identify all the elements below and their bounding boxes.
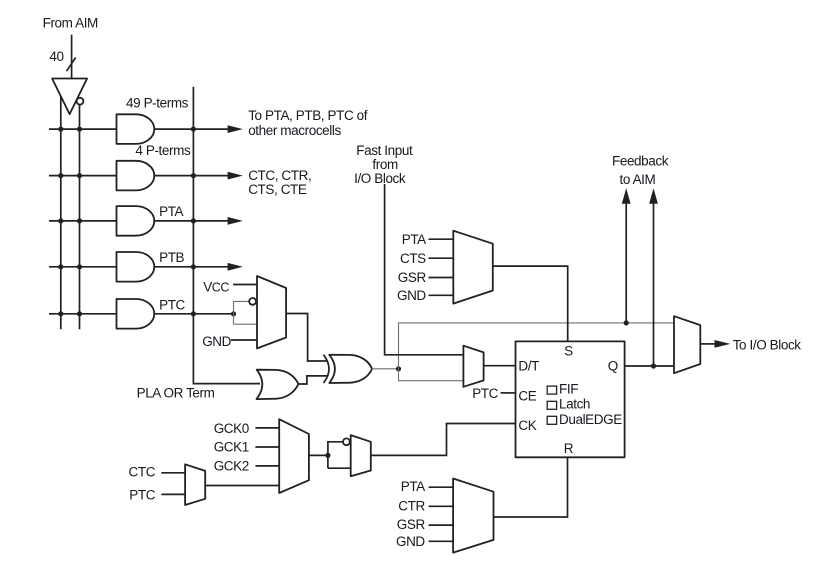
wire AND1 input stub: [49, 128, 117, 130]
and-gate G1 49 P-terms: [117, 114, 155, 144]
svg-text:CTC, CTR,: CTC, CTR,: [248, 168, 311, 183]
wire OR output to XOR: [298, 376, 327, 384]
and-gate G5 PTC: [117, 299, 155, 329]
wire clock inverted branch: [328, 442, 343, 468]
checkbox Latch: [547, 401, 556, 409]
wire M2 output to D/T: [484, 365, 516, 367]
svg-text:Latch: Latch: [559, 397, 590, 412]
svg-text:D/T: D/T: [518, 359, 539, 374]
and-gate G4 PTB: [117, 252, 155, 282]
junction dots on collector: [191, 127, 196, 317]
arrowhead G3: [228, 217, 243, 225]
wire M1 output to XOR: [286, 314, 326, 362]
svg-text:S: S: [564, 343, 573, 358]
wire AND5 input stub: [49, 313, 117, 315]
wire AND3 input stub: [49, 220, 117, 222]
svg-text:VCC: VCC: [203, 280, 229, 295]
mux M6 clock polarity: [351, 435, 371, 476]
svg-text:CK: CK: [518, 418, 536, 433]
wire GCK2 input: [255, 465, 279, 467]
wire clock true branch: [328, 467, 351, 469]
svg-text:Fast Input: Fast Input: [356, 143, 413, 158]
mux M2 D/T select: [463, 346, 483, 387]
svg-text:PTC: PTC: [472, 386, 498, 401]
svg-text:PTA: PTA: [159, 204, 183, 219]
svg-text:R: R: [564, 441, 574, 456]
and-gate G3 PTA: [117, 206, 155, 236]
wire feedback 2: [653, 203, 655, 366]
svg-text:GCK1: GCK1: [214, 440, 249, 455]
wire G3 output: [154, 220, 228, 222]
wire feedback 1: [625, 203, 627, 323]
svg-text:4 P-terms: 4 P-terms: [135, 143, 191, 158]
wire PTC inverted branch: [234, 301, 250, 324]
wire G1 output: [154, 128, 228, 130]
wire PTA to S-mux: [429, 238, 454, 240]
svg-text:PTA: PTA: [402, 232, 426, 247]
mux M7 reset select: [453, 479, 493, 553]
wire fast input: [385, 184, 464, 355]
buffer U1 (AIM input buffer): [52, 79, 87, 115]
svg-text:To I/O Block: To I/O Block: [733, 338, 802, 353]
wire PTC to CE: [501, 392, 516, 394]
bus width slash: [67, 58, 76, 72]
wire complement rail: [79, 105, 81, 330]
wire XOR to register D input: [399, 369, 464, 381]
svg-text:40: 40: [49, 49, 63, 64]
junction dots on rails: [58, 127, 82, 317]
svg-text:CTC: CTC: [129, 465, 156, 480]
junction dot PTC branch: [231, 311, 236, 316]
arrowhead feedback 1: [622, 188, 631, 203]
junction dot clock branch: [325, 453, 330, 458]
register U2 FF block: [516, 341, 625, 457]
wire combinatorial feed up: [399, 323, 675, 369]
svg-text:to AIM: to AIM: [620, 172, 656, 187]
svg-text:Q: Q: [608, 359, 618, 374]
junction dot comb feedback: [624, 320, 629, 325]
wire M6 output to CK: [371, 424, 516, 456]
and-gate G2 4 P-terms: [117, 161, 155, 191]
xor input arc: [324, 355, 329, 383]
mux M8 output select: [674, 316, 700, 373]
arrowhead to I/O block: [715, 340, 731, 348]
svg-text:GCK2: GCK2: [214, 459, 249, 474]
wire to I/O block: [700, 343, 716, 345]
wire GSR to S-mux: [429, 277, 454, 279]
wire GND input: [231, 339, 257, 341]
wire bus from AIM: [71, 35, 73, 79]
svg-text:From AIM: From AIM: [43, 16, 98, 31]
or-gate G6 PLA OR: [257, 370, 299, 399]
wire PLA vertical collector: [193, 87, 260, 384]
svg-text:CTR: CTR: [398, 498, 425, 513]
svg-text:PTC: PTC: [129, 487, 155, 502]
mux M3 set select: [453, 231, 493, 304]
inverter bubble M6 input: [343, 438, 350, 445]
svg-text:GND: GND: [397, 288, 426, 303]
junction dot XOR output: [396, 366, 401, 371]
svg-text:CTS: CTS: [400, 251, 426, 266]
wire AND2 input stub: [49, 175, 117, 177]
svg-text:DualEDGE: DualEDGE: [559, 412, 622, 427]
svg-text:PTC: PTC: [159, 297, 185, 312]
wire true rail: [60, 96, 62, 329]
svg-text:To PTA, PTB, PTC of: To PTA, PTB, PTC of: [248, 108, 368, 123]
wire GCK0 input: [255, 427, 279, 429]
svg-text:I/O Block: I/O Block: [354, 171, 406, 186]
arrowhead G4: [228, 263, 243, 271]
svg-text:GSR: GSR: [397, 517, 426, 532]
wire CTR to R-mux: [429, 505, 454, 507]
xor-gate G7: [329, 355, 372, 383]
wire G2 output: [154, 175, 228, 177]
wire Q output: [625, 365, 674, 367]
svg-text:PLA OR Term: PLA OR Term: [137, 386, 215, 401]
wire VCC input: [233, 284, 257, 286]
svg-text:PTA: PTA: [401, 479, 425, 494]
svg-text:Feedback: Feedback: [612, 154, 669, 169]
wire M3 output to S: [493, 266, 568, 341]
mux M1 VCC GND PTC: [257, 276, 286, 348]
wire G5 PTC output: [154, 313, 233, 315]
svg-text:from: from: [372, 157, 398, 172]
wire GND to R-mux: [429, 540, 454, 542]
svg-text:GSR: GSR: [398, 270, 427, 285]
wire CTS to S-mux: [429, 257, 454, 259]
arrowhead G1: [228, 125, 243, 133]
wire GND to S-mux: [429, 294, 454, 296]
svg-text:GND: GND: [396, 534, 425, 549]
svg-text:FIF: FIF: [559, 382, 578, 397]
inverter bubble M1 input: [249, 298, 256, 305]
svg-text:other macrocells: other macrocells: [248, 123, 341, 138]
svg-text:CE: CE: [518, 388, 536, 403]
mux M4 CTC/PTC: [185, 464, 205, 505]
wire GCK1 input: [255, 446, 279, 448]
mux M5 clock select: [279, 419, 309, 493]
wire GSR to R-mux: [429, 524, 454, 526]
wire PTC input: [161, 493, 185, 495]
svg-text:49 P-terms: 49 P-terms: [126, 96, 189, 111]
wire M5 output: [309, 454, 328, 456]
svg-text:GND: GND: [202, 334, 231, 349]
wire XOR output: [372, 368, 399, 370]
svg-text:GCK0: GCK0: [214, 421, 249, 436]
svg-text:CTS, CTE: CTS, CTE: [248, 182, 307, 197]
junction dot Q feedback: [651, 363, 656, 368]
wire PTC true branch: [234, 323, 258, 325]
wire AND4 input stub: [49, 266, 117, 268]
wire G4 output: [154, 266, 228, 268]
arrowhead G2: [228, 172, 243, 180]
inverter bubble on buffer: [77, 98, 84, 105]
wire M4 output: [205, 485, 279, 487]
arrowhead feedback 2: [649, 188, 658, 203]
wire M7 output to R: [494, 457, 568, 517]
checkbox DualEDGE: [547, 416, 556, 424]
wire PTA to R-mux: [429, 486, 454, 488]
svg-text:PTB: PTB: [159, 250, 184, 265]
wire CTC input: [161, 472, 185, 474]
checkbox FIF: [547, 386, 556, 394]
